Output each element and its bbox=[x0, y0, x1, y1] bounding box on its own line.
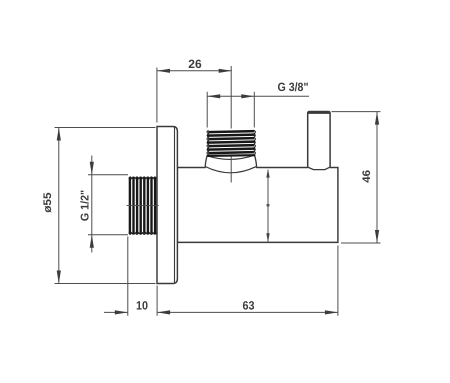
svg-text:46: 46 bbox=[361, 170, 373, 183]
flange inner rim line bbox=[174, 128, 176, 283]
svg-text:26: 26 bbox=[188, 57, 202, 71]
valve body rectangle bbox=[177, 168, 338, 243]
dimension ø55 bottom arrowhead bbox=[57, 271, 61, 284]
vertical centerline through outlet axis bbox=[230, 66, 232, 183]
dimension 10 left arrowhead (outside, pointing right) bbox=[115, 310, 128, 314]
G 1/2 inlet thread (left, horizontal stud) bbox=[130, 177, 155, 235]
svg-text:63: 63 bbox=[243, 298, 255, 312]
dimension 63 left arrowhead bbox=[157, 310, 170, 314]
dimension 10: tail line and extension lines bbox=[104, 237, 157, 316]
dimension G 3/8": dimension line with leader and extension lines bbox=[207, 92, 309, 128]
neck below top thread: flared sides bbox=[205, 155, 256, 167]
G 3/8 outlet thread (top, vertical stud) bbox=[207, 131, 255, 156]
flange disc (wall rosette) side view bbox=[157, 127, 177, 284]
G 3/8 thread scalloped right edge bbox=[254, 130, 256, 155]
svg-text:G 1/2": G 1/2" bbox=[80, 190, 92, 221]
dimension 46: dimension line and extension lines bbox=[332, 112, 381, 243]
knob cap line bbox=[308, 111, 329, 114]
knob base chamfer bbox=[308, 167, 330, 170]
dimension 63: dimension line and extension line bbox=[157, 246, 338, 316]
inlet axis centerline across thread bbox=[127, 204, 159, 206]
G 1/2 thread scalloped top edge bbox=[129, 177, 157, 179]
dimension 26 right arrowhead bbox=[219, 69, 232, 73]
dimension 63 right arrowhead bbox=[325, 310, 338, 314]
neck chamfer arc upper bbox=[207, 155, 254, 159]
dimension 26: dimension line and extension line bbox=[157, 68, 232, 123]
internal double-arrow line inside body bbox=[266, 169, 269, 243]
svg-text:G 3/8": G 3/8" bbox=[278, 80, 309, 94]
dimension ø55: dimension line and extension lines bbox=[55, 128, 156, 284]
dimension G 1/2" top arrowhead (outside, pointing down) bbox=[90, 162, 94, 175]
handle knob (top right) bbox=[308, 112, 330, 168]
G 1/2 thread scalloped bottom edge bbox=[129, 233, 157, 235]
G 3/8 thread scalloped left edge bbox=[207, 130, 209, 155]
dimension G 3/8" right arrowhead bbox=[241, 94, 254, 98]
dimension G 1/2": dimension line and extension lines bbox=[88, 156, 128, 253]
svg-text:ø55: ø55 bbox=[42, 192, 54, 212]
dimension G 3/8" left arrowhead bbox=[207, 94, 220, 98]
dimension 46 bottom arrowhead bbox=[375, 230, 379, 243]
neck runout arc lower bbox=[205, 166, 256, 173]
dimension ø55 top arrowhead bbox=[57, 128, 61, 141]
dimension 26 left arrowhead bbox=[157, 69, 170, 73]
dimension G 1/2" bottom arrowhead (outside, pointing up) bbox=[90, 235, 94, 248]
dimension 46 top arrowhead bbox=[375, 112, 379, 125]
svg-text:10: 10 bbox=[136, 298, 148, 312]
